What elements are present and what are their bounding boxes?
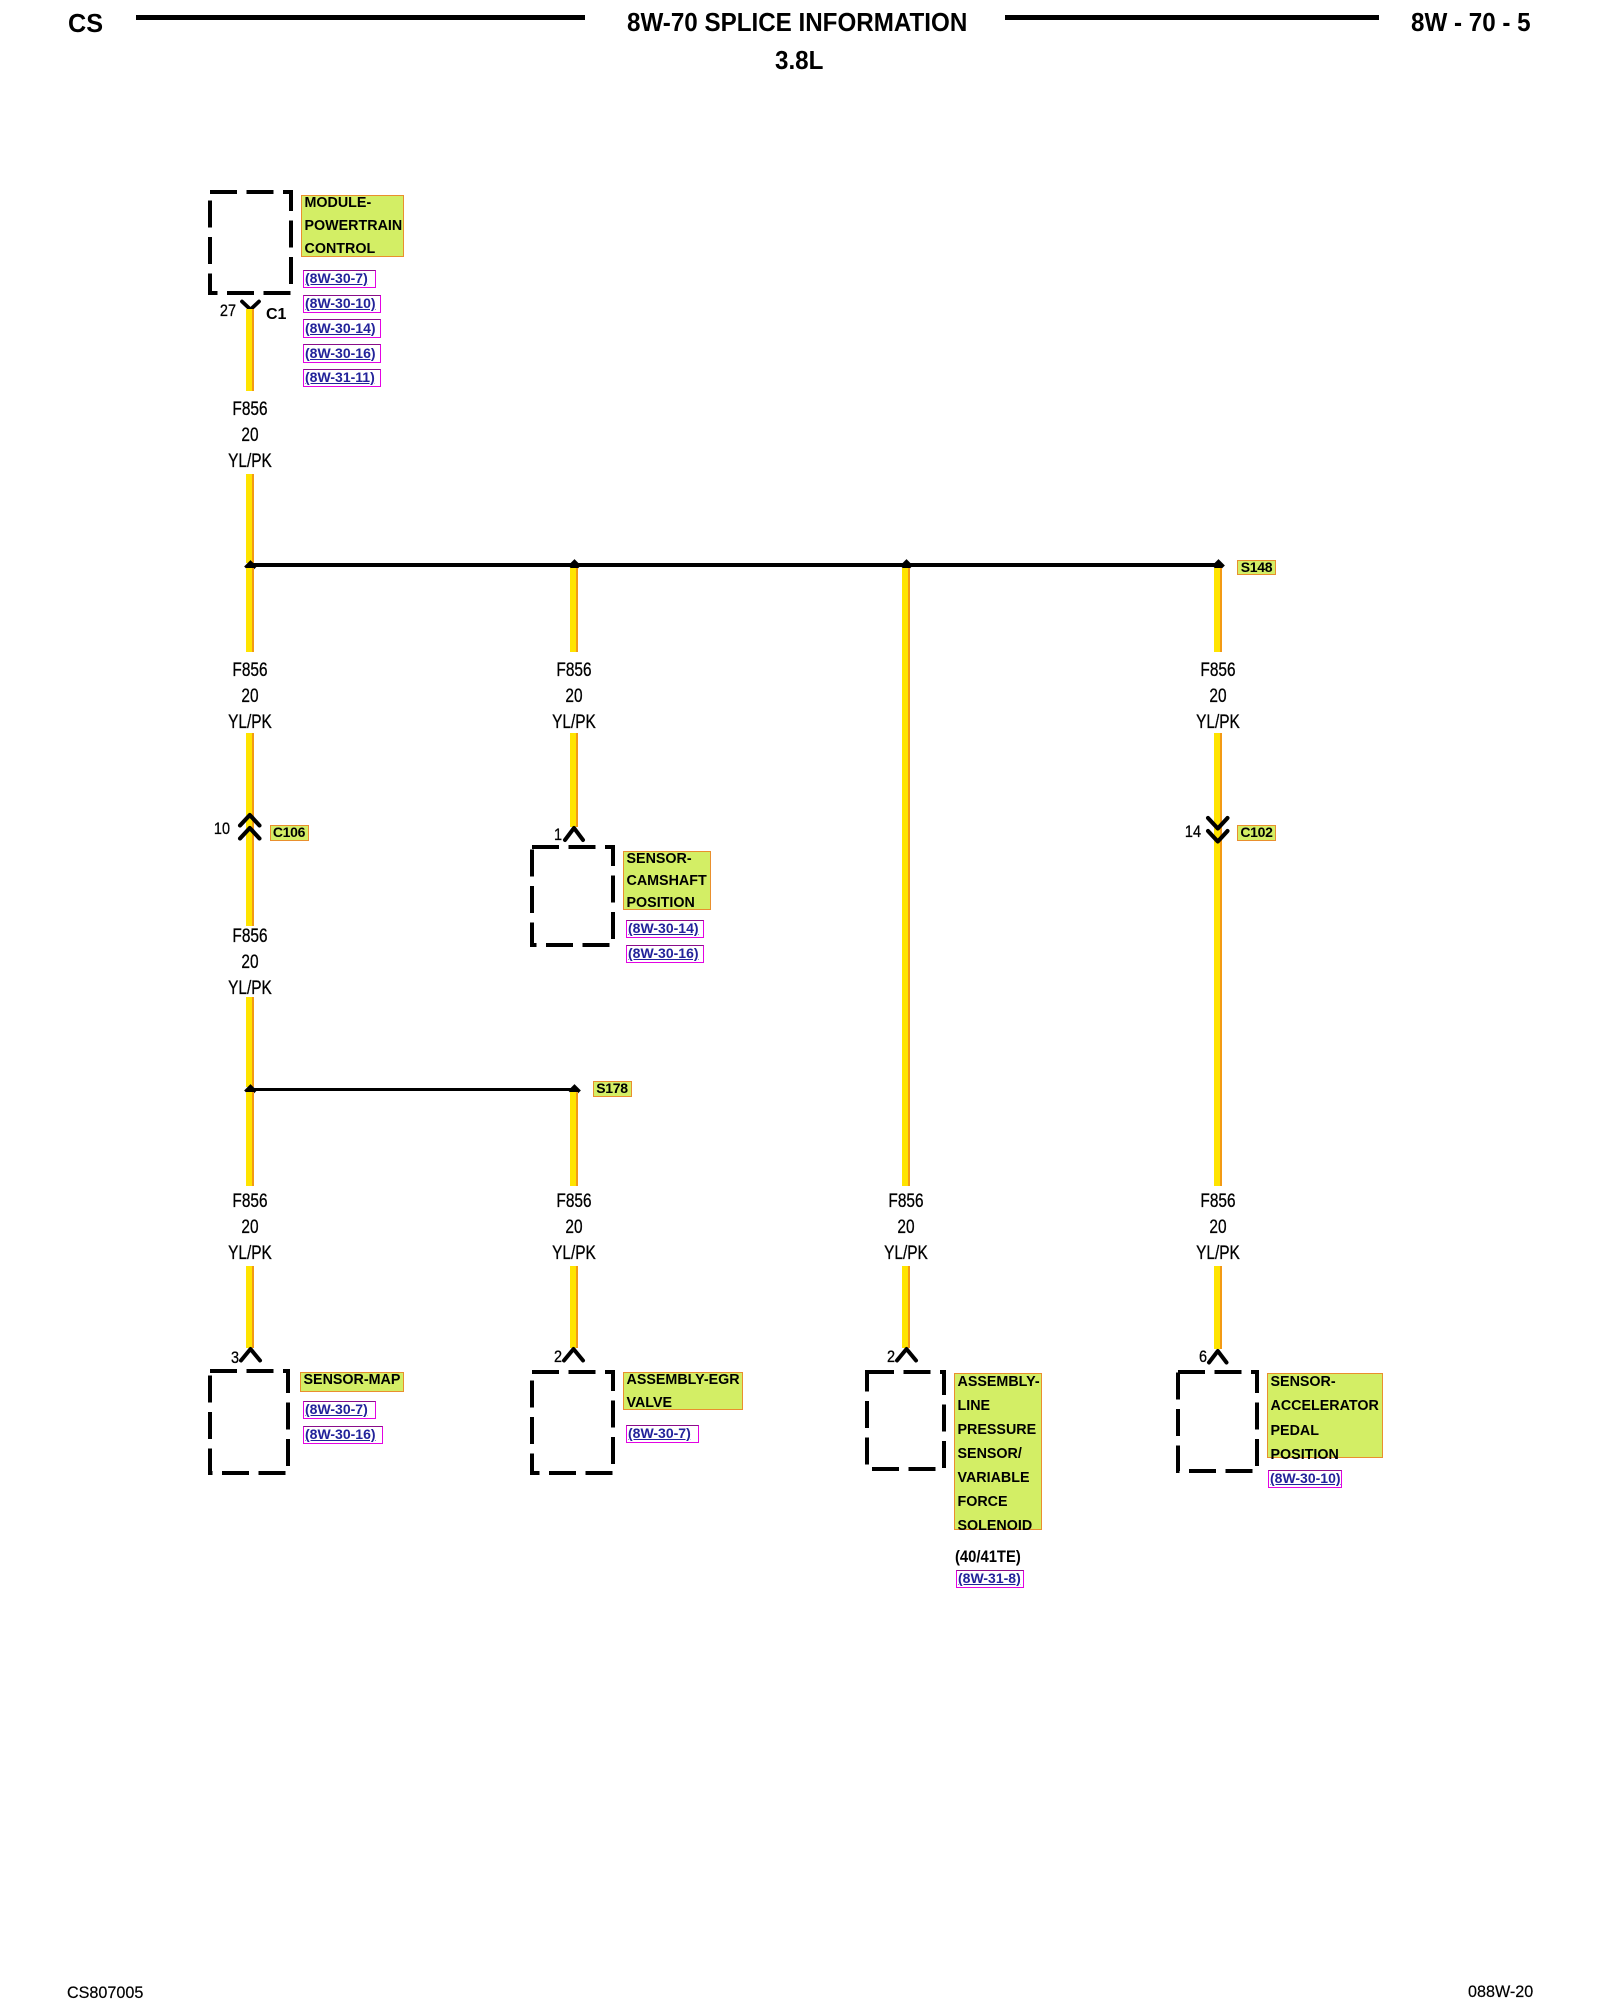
pin number pin 1 at camshaft sensor [528,826,562,844]
reference link 8W-30-7 (MAP) [303,1401,376,1420]
wire F856 to C106 [246,733,254,926]
splice junction dot S148 tap col2 [568,559,581,572]
wire F856 to EGR valve [570,1266,578,1348]
label connector C102 [1237,825,1276,841]
connector half-symbol MAP pin 3 (chevron up) [238,1346,263,1364]
reference link 8W-30-14 (PCM) [303,319,381,338]
pin number pin 2 at EGR [528,1348,562,1366]
splice junction dot S178 tap col2 [568,1084,581,1097]
note (40/41TE) [955,1547,1021,1567]
footer drawing number 088W-20 [1468,1982,1533,2000]
in-line connector C106 (double chevron up) [237,812,263,842]
header rule left [136,15,585,20]
wire F856 S148 down col1 [246,568,254,652]
header subtitle 3.8L [775,45,823,76]
wire F856 to camshaft sensor [570,733,578,827]
reference link 8W-30-14 (camshaft) [626,920,704,939]
splice junction dot S148 tap col1 [244,560,257,573]
wire F856 S148 down col3 (long) [902,568,910,1186]
splice junction dot S148 tap col4 [1212,559,1225,572]
reference link 8W-30-16 (MAP) [303,1426,383,1445]
wire F856 to accelerator pedal sensor [1214,1266,1222,1349]
splice junction dot S178 tap col1 [244,1084,257,1097]
wire F856 S178 down col1 [246,1092,254,1186]
connector half-symbol accel pedal pin 6 (chevron up) [1206,1348,1230,1366]
splice bus S148 [250,563,1218,566]
pin number pin 27 at C1 [202,302,236,320]
label splice S148 [1237,560,1276,576]
wire label col2-B F856 20 YL/PK [538,657,609,735]
reference link 8W-31-8 (line pressure) [956,1570,1024,1589]
wire F856 S178 down col2 [570,1092,578,1186]
label splice S178 [593,1081,632,1097]
connector name C1 [266,306,286,324]
component label ASSEMBLY-LINE PRESSURE SENSOR/VARIABLE FORCE SOLENOID [954,1373,1042,1530]
wire F856 to line pressure sensor [902,1266,910,1348]
assembly EGR valve box (dashed connector box) [530,1370,615,1475]
splice bus S178 [250,1088,574,1091]
component label SENSOR-MAP [300,1372,404,1392]
module U1 PCM box (dashed connector box) [208,190,293,295]
wire F856 through C102 [1214,733,1222,1186]
connector C1 half-symbol (Y) [238,297,263,313]
wire F856 C106 to S178 [246,997,254,1087]
assembly line pressure sensor box (dashed connector box) [865,1370,946,1471]
pin number pin 3 at MAP [205,1349,239,1367]
pin number pin 10 at C106 [196,820,230,838]
wire F856 label to S148 [246,474,254,563]
reference link 8W-30-10 (PCM) [303,295,381,314]
wire F856 S148 down col2 [570,568,578,652]
header title 8W-70 SPLICE INFORMATION [627,7,967,38]
header page number 8W - 70 - 5 [1411,7,1531,38]
label connector C106 [270,825,309,841]
sensor camshaft box (dashed connector box) [530,845,615,947]
footer sheet code CS807005 [67,1983,143,2000]
wire label col1-A F856 20 YL/PK [214,396,285,474]
in-line connector C102 (double chevron down) [1205,815,1231,845]
reference link 8W-30-7 (PCM) [303,270,376,289]
wire F856 to MAP sensor [246,1266,254,1348]
wire F856 C1 to label [246,309,254,391]
pin number pin 2 at line pressure sensor [861,1348,895,1366]
wire label col4-D F856 20 YL/PK [1182,1188,1253,1266]
reference link 8W-31-11 (PCM) [303,369,381,388]
reference link 8W-30-16 (camshaft) [626,945,704,964]
sensor MAP box (dashed connector box) [208,1369,290,1475]
splice junction dot S148 tap col3 [900,559,913,572]
sensor accelerator pedal box (dashed connector box) [1176,1370,1259,1473]
wire label col4-B F856 20 YL/PK [1182,657,1253,735]
wire label col1-C F856 20 YL/PK [214,923,285,1001]
component label ASSEMBLY-EGR VALVE [623,1372,743,1410]
wire label col2-D F856 20 YL/PK [538,1188,609,1266]
component label SENSOR-CAMSHAFT POSITION [623,851,711,910]
header label CS [68,8,103,39]
wire F856 S148 down col4 [1214,568,1222,652]
wire label col3-D F856 20 YL/PK [870,1188,941,1266]
header rule right [1005,15,1379,20]
connector half-symbol line pressure pin 2 (chevron up) [894,1346,919,1364]
component label MODULE-POWERTRAIN CONTROL [301,195,404,257]
connector half-symbol camshaft pin 1 (chevron up) [562,825,586,843]
reference link 8W-30-16 (PCM) [303,344,381,363]
wire label col1-B F856 20 YL/PK [214,657,285,735]
wire label col1-D F856 20 YL/PK [214,1188,285,1266]
reference link 8W-30-10 (accel pedal) [1268,1470,1342,1489]
connector half-symbol EGR pin 2 (chevron up) [561,1346,586,1364]
pin number pin 14 at C102 [1167,823,1201,841]
pin number pin 6 at accel pedal sensor [1173,1348,1207,1366]
component label SENSOR-ACCELERATOR PEDAL POSITION [1267,1373,1383,1458]
reference link 8W-30-7 (EGR) [626,1425,699,1444]
